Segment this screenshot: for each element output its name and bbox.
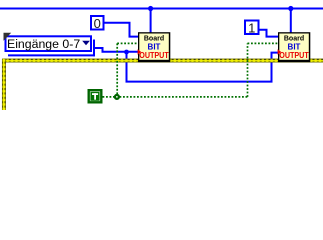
svg-text:0: 0 — [94, 16, 101, 31]
wire: error cluster vertical left edge — [2, 59, 6, 110]
ring constant Eingänge 0-7 — [6, 36, 92, 51]
ring constant corner glyph — [4, 33, 12, 41]
constant 0 — [91, 16, 104, 30]
constant T boolean — [89, 90, 102, 102]
node: coercion arrow U1 — [138, 49, 142, 55]
wire: terminal drop to U1 top — [150, 9, 152, 34]
wire: boolean to U2 — [248, 42, 279, 44]
wire: from constant 1 — [259, 30, 278, 37]
svg-text:Eingänge 0-7: Eingänge 0-7 — [7, 37, 80, 51]
node: coercion arrow U2 — [278, 49, 282, 55]
wire: boolean right branch — [120, 96, 248, 98]
node: wire junction dot — [124, 50, 129, 55]
node: rail junction dot B — [288, 6, 293, 11]
node: boolean junction ring — [115, 95, 119, 99]
ring constant dropdown arrow — [82, 41, 90, 46]
node: rail junction dot A — [148, 6, 153, 11]
svg-text:Board: Board — [144, 36, 164, 43]
svg-text:1: 1 — [248, 21, 255, 36]
svg-text:OUTPUT: OUTPUT — [279, 51, 309, 60]
wire: top blue rail — [0, 8, 323, 10]
constant 1 — [245, 21, 259, 35]
wire: branch down from junction — [127, 52, 279, 82]
svg-text:Board: Board — [284, 36, 304, 43]
wire: error cluster horizontal — [2, 59, 323, 63]
wire: terminal drop to U2 top — [290, 9, 292, 34]
svg-text:OUTPUT: OUTPUT — [139, 51, 169, 60]
wire: from constant 0 — [104, 23, 138, 37]
subVI U1 Board BIT OUTPUT — [138, 32, 170, 62]
wire: boolean to U1 — [117, 42, 138, 44]
wire: ring to U1 value input — [95, 48, 138, 52]
wire: T to junction ring — [103, 96, 115, 98]
wire: boolean up to U2 — [247, 43, 249, 97]
subVI U2 Board BIT OUTPUT — [278, 32, 310, 62]
ring constant shadow — [8, 54, 95, 56]
wire: boolean up branch — [116, 43, 118, 94]
